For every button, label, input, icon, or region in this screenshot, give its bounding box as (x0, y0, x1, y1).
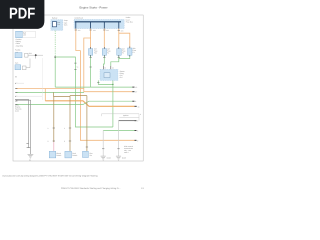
left group2 fuse label (29, 52, 33, 55)
tick orange bottom right (135, 139, 137, 141)
junction dot on wire (35, 54, 37, 56)
splice tick green branch (74, 62, 76, 64)
fuse F3 label (122, 47, 126, 54)
page background (0, 0, 149, 198)
wire: orange fuse feed F2 (103, 29, 105, 49)
left group2 blue box (15, 53, 22, 58)
svg-text:Switch: Switch (72, 154, 77, 157)
tick green lower right (135, 130, 137, 132)
splice tick F22 green 2 (89, 66, 91, 68)
switch S1 label (56, 152, 61, 157)
tick black (135, 120, 137, 122)
svg-text:Assembly: Assembly (16, 44, 23, 47)
fuse F4 label (133, 47, 137, 54)
svg-text:Switch: Switch (56, 154, 61, 157)
fuse box label right (126, 16, 133, 23)
splice tick relay out (97, 82, 99, 84)
svg-text:9: 9 (137, 139, 138, 142)
svg-text:2: 2 (64, 140, 65, 143)
switch S3 label (90, 152, 93, 157)
left group3 label (15, 62, 18, 65)
wire: green relay out pin A (98, 80, 113, 84)
relay pin stub 2 (110, 66, 112, 70)
diagram frame border (13, 15, 143, 161)
svg-text:27: 27 (135, 91, 137, 94)
splice tick green branch 2 (74, 69, 76, 71)
splice tick on F3 feed (118, 29, 120, 31)
left fuse group label (15, 49, 21, 54)
brown drop labels (48, 127, 66, 143)
fuse pin stubs dark (91, 46, 130, 56)
wire: green to right connector lower (103, 130, 134, 132)
wire: green battery drop solid (54, 57, 56, 87)
fuse F22 (89, 49, 93, 56)
splice tick F22 out (89, 57, 91, 59)
svg-text:Gen: Gen (15, 62, 18, 65)
wire: green battery drop dashed (54, 31, 56, 57)
left battery text below (16, 38, 23, 47)
wire: black to right connector (119, 120, 135, 122)
svg-text:PDF: PDF (9, 6, 35, 23)
wire: orange upper horizontal right arm (45, 88, 84, 90)
left group3 fuse (22, 66, 26, 70)
splice ticks brown drops (53, 127, 55, 129)
terminal bar on black wire 1 (27, 147, 31, 149)
wire: orange branch pair down (80, 51, 134, 141)
wire: pink tail to switch 1 (53, 142, 55, 151)
svg-text:41: 41 (138, 105, 140, 108)
wire: green battery elbow horizontal to riser (55, 86, 132, 88)
splice tick G3 (117, 148, 119, 150)
svg-text:Battery: Battery (52, 17, 58, 20)
left pin stub white (16, 82, 24, 84)
wire: brown drop to switch 3 (86, 96, 88, 152)
stub below junction (35, 55, 37, 58)
svg-text:5: 5 (137, 130, 138, 133)
junction dot green riser (112, 84, 113, 85)
wire: brown horizontal (53, 96, 70, 98)
underhood fuse box (long) (74, 19, 124, 28)
ignition module inner edge (119, 117, 139, 119)
wire: orange thick horizontal crossover (45, 101, 134, 107)
fuse F22 label (94, 47, 98, 54)
switch S1 bottom (49, 151, 56, 158)
left battery label (23, 32, 27, 37)
splice tick G2 (102, 148, 104, 150)
wire: white drop to ground G2 (102, 131, 104, 157)
tick orange upper (132, 91, 134, 93)
tick orange crossover (135, 105, 137, 107)
splice tick on F2 feed (103, 29, 105, 31)
bottom right note (124, 145, 134, 154)
left connector text block (15, 103, 21, 112)
wire: green lower long horizontal crossover (16, 101, 132, 104)
switch S2 label (72, 152, 77, 157)
svg-text:6: 6 (140, 113, 141, 116)
splice tick on pair (26, 143, 28, 145)
svg-text:G: G (15, 76, 17, 79)
svg-text:Engine Starts - Power: Engine Starts - Power (79, 5, 107, 9)
splice tick on tap 1 (75, 29, 77, 31)
bus bar (75, 21, 121, 23)
svg-text:1: 1 (48, 127, 49, 130)
junction dot battery branch (54, 56, 56, 58)
ground G1 (28, 154, 34, 158)
wire: green from fuse F22 to right connector (90, 55, 92, 87)
wire: brown tap from green (52, 92, 54, 96)
wire: green from fuse F4 to F3 (119, 55, 130, 58)
svg-text:Conn: Conn (15, 110, 19, 113)
svg-text:www.autozone.com.diy.wiring-di: www.autozone.com.diy.wiring-diagrams.200… (2, 174, 98, 177)
wire: green left long horizontal (16, 91, 84, 93)
svg-text:8: 8 (135, 100, 136, 103)
ground G2 (101, 156, 106, 160)
wire from group3 fuse (26, 59, 30, 68)
battery label right (57, 19, 68, 26)
relay label right (120, 70, 126, 79)
wire: orange fuse feed F22 (90, 29, 92, 49)
svg-text:1: 1 (64, 127, 65, 130)
ignition module box (102, 114, 140, 121)
wire: orange tap 1 below fuse box (76, 29, 81, 51)
switch S3 bottom (83, 151, 89, 157)
left group3 blue box (15, 65, 21, 70)
wire: black pair from left connector (16, 99, 28, 147)
fuse F4 (128, 48, 132, 55)
tick green F22 wire (132, 86, 134, 88)
bus drop 3 (103, 22, 105, 29)
wire: green from fuse F2 down (102, 55, 105, 66)
bus drop 4 (118, 22, 120, 29)
svg-text:Underhood: Underhood (75, 16, 83, 19)
svg-text:Ignition: Ignition (123, 114, 129, 117)
left battery blue box (16, 31, 23, 38)
starter relay K1 (100, 69, 118, 80)
wire: white drop to ground G3 (118, 121, 120, 156)
bus drop 1 (75, 22, 77, 29)
svg-text:2: 2 (48, 140, 49, 143)
wire: brown drop to switch 1 (53, 97, 55, 143)
wire: orange left pin to T junction (16, 88, 45, 90)
svg-text:G103: G103 (122, 157, 126, 160)
left pin stub gray (16, 95, 42, 97)
splice tick on F22 feed (89, 29, 91, 31)
wire: green from fuse F3 down (111, 55, 119, 66)
fuse F2 label (107, 47, 111, 54)
left group2 fuse (25, 53, 28, 57)
tick green crossover (132, 100, 134, 102)
fuse F2 (102, 49, 106, 56)
wire: green branch right then down across bottom (55, 57, 113, 127)
wire: brown arm 2 (70, 95, 87, 97)
wire: brown drop to switch 2 (69, 96, 71, 152)
wire from fuse right (28, 54, 43, 56)
wire: orange branch 2 (84, 38, 133, 92)
svg-text:12: 12 (135, 86, 137, 89)
left connector pin ticks (15, 83, 17, 104)
ground G3 (116, 156, 121, 160)
faint harness divider (41, 58, 43, 100)
fuse F3 (117, 49, 121, 56)
splice tick F3 out (118, 57, 120, 59)
svg-text:2006-PT-CRUISER Standards Star: 2006-PT-CRUISER Standards Starting and C… (61, 187, 121, 190)
wire: orange T drop (44, 89, 46, 101)
left battery unit box (22, 31, 36, 37)
splice tick F2 out (103, 57, 105, 59)
switch S2 bottom (65, 151, 72, 158)
svg-text:G102: G102 (107, 157, 111, 160)
bus drop 2 (90, 22, 92, 29)
svg-text:3: 3 (137, 120, 138, 123)
relay pin stub 1 (102, 66, 104, 70)
wire: green riser relay to elbow (112, 81, 114, 128)
wire: orange fuse feed F4 branch (119, 33, 130, 48)
svg-text:Fuse Box: Fuse Box (126, 20, 133, 23)
PDF badge (0, 0, 44, 29)
wire: orange fuse feed F3 (118, 29, 120, 49)
battery component box B+ (51, 20, 63, 31)
